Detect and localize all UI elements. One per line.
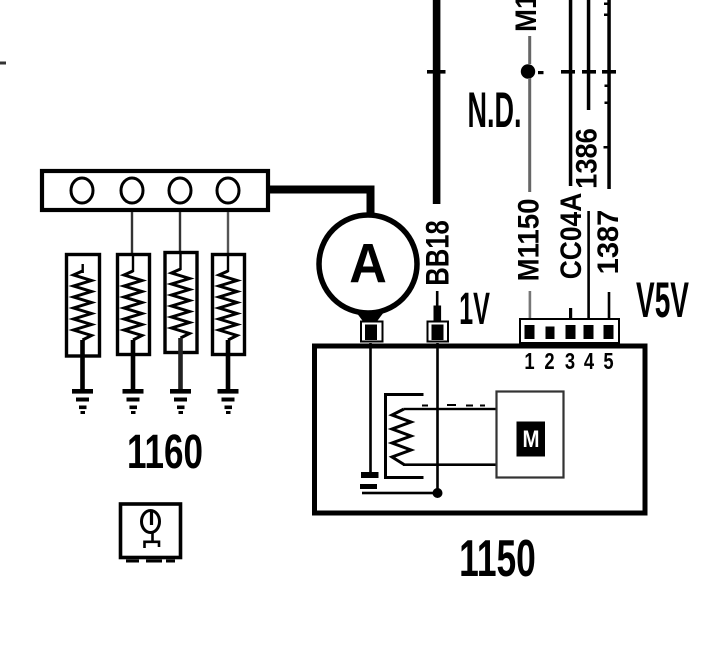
wire eyelet4 to resistor R4 <box>227 212 229 272</box>
pin 3 blob <box>566 325 576 339</box>
wire pin3 upper <box>569 0 573 186</box>
wire pin4 upper <box>587 0 591 110</box>
connector 1160 housing <box>42 171 268 210</box>
svg-text:1150: 1150 <box>459 530 536 587</box>
svg-text:M1150: M1150 <box>512 199 545 282</box>
hatch marks on pin5 wire <box>604 3 610 149</box>
resistor R4 zigzag <box>219 271 237 340</box>
ground symbol R4 <box>218 389 239 414</box>
pin numbers 1 2 3 4 5 <box>524 349 613 374</box>
wire BB18 (thick, from top) <box>433 0 441 204</box>
resistor R4 top lead <box>227 254 229 272</box>
svg-text:1: 1 <box>524 349 534 374</box>
svg-text:1386: 1386 <box>570 128 603 189</box>
resistor R1 top stub <box>82 264 84 273</box>
internal wire from right terminal <box>436 343 439 493</box>
ground lead R3 <box>178 338 183 390</box>
svg-text:3: 3 <box>565 349 575 374</box>
resistor R3 top lead <box>179 252 181 270</box>
wire eyelet2 to resistor R2 <box>131 212 133 272</box>
terminal stub block <box>434 306 442 322</box>
resistor R3 body <box>165 253 197 353</box>
pin 2 blob <box>546 327 555 340</box>
internal wire from left terminal <box>369 343 372 473</box>
terminal eyelet 4 <box>217 178 239 203</box>
terminal eyelet 3 <box>169 178 191 203</box>
svg-text:BB18: BB18 <box>421 220 456 285</box>
svg-text:M1150: M1150 <box>510 0 543 32</box>
terminal eyelet 1 <box>71 178 93 203</box>
resistor R2 zigzag <box>124 271 142 340</box>
wire pin5 lower <box>608 292 611 325</box>
terminal lug into pin (left, under ammeter) <box>361 322 383 342</box>
wire pin1 lower segment <box>529 291 532 325</box>
wire pin4 lower <box>587 211 590 325</box>
wiper wire to motor <box>404 408 497 410</box>
service icon <box>142 511 160 549</box>
pin 5 blob <box>604 325 614 339</box>
capacitor bar top <box>361 472 379 478</box>
resistor R2 top lead <box>132 254 134 272</box>
svg-text:4: 4 <box>584 349 595 374</box>
junction dot <box>433 488 443 498</box>
svg-text:M: M <box>522 426 539 453</box>
wire pin5 upper <box>607 0 611 189</box>
svg-text:1387: 1387 <box>592 210 625 275</box>
scan dashes above wiper wire <box>422 404 485 407</box>
page cut dash far left <box>0 62 6 65</box>
ground symbol R1 <box>72 389 93 414</box>
ground lead R2 <box>131 340 136 390</box>
ammeter lower taper <box>356 312 384 324</box>
resistor R1 zigzag <box>74 271 92 340</box>
wire eyelet3 to resistor R3 <box>179 212 181 272</box>
thick supply wire from connector to ammeter <box>268 190 371 215</box>
splice dot on pin1 wire <box>521 64 535 78</box>
svg-text:5: 5 <box>603 349 613 374</box>
connector V5V 5-pin housing <box>520 319 619 343</box>
wire pin3 lower <box>569 308 572 325</box>
motor box <box>497 392 564 478</box>
motor M symbol <box>517 422 546 457</box>
svg-text:A: A <box>349 233 387 295</box>
wire resistor bottom to motor <box>403 463 497 466</box>
resistor R1 body <box>67 255 100 357</box>
resistor R2 body <box>118 255 150 355</box>
svg-text:N.D.: N.D. <box>468 82 522 138</box>
ground symbol R3 <box>170 389 191 414</box>
terminal eyelet 2 <box>121 178 143 203</box>
unit 1150 box <box>315 346 646 513</box>
pin 1 blob <box>525 325 535 339</box>
ground lead R4 <box>226 340 231 390</box>
wire pin1 upper segment <box>528 36 531 64</box>
capacitor bar bottom <box>360 484 377 489</box>
ground symbol R2 <box>123 389 144 414</box>
box feet <box>126 560 175 563</box>
svg-text:1V: 1V <box>459 283 490 334</box>
pin 4 blob <box>584 325 594 339</box>
service component box <box>121 504 181 558</box>
svg-text:2: 2 <box>544 349 554 374</box>
ammeter A <box>319 215 417 313</box>
page cut ticks at y=72 <box>427 70 616 74</box>
wire pin1 mid segment <box>528 78 531 192</box>
svg-text:CC04A: CC04A <box>554 193 588 280</box>
resistor R3 zigzag <box>172 269 190 338</box>
svg-text:1160: 1160 <box>127 425 203 479</box>
resistor R4 body <box>213 255 245 355</box>
terminal lug into pin (right) <box>428 322 449 342</box>
internal bottom wire <box>362 492 438 495</box>
resistor bracket <box>386 395 424 478</box>
ground lead R1 <box>80 340 85 390</box>
svg-text:V5V: V5V <box>636 271 689 328</box>
motor resistor zigzag (inside 1150) <box>392 409 411 465</box>
wire BB18 lower stub <box>436 291 439 307</box>
